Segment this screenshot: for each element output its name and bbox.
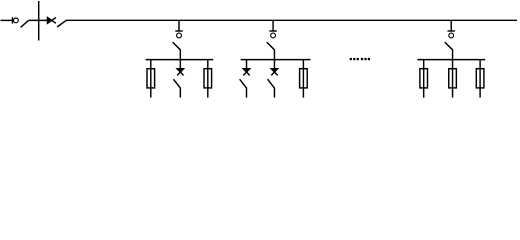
entry bus tie (vertical) — [38, 1, 40, 41]
wire from switch QS2 down to section bus — [179, 50, 181, 61]
wire from section bus to breaker QF2 — [179, 60, 181, 68]
section bus 1 — [146, 59, 214, 61]
fixed contact cross of main breaker QF1 — [48, 18, 52, 24]
wire from switch QS4 down to section bus — [452, 50, 454, 61]
fixed contact cross of breaker QF2 — [177, 69, 183, 72]
wire through fuse FU5 — [452, 60, 454, 98]
wire through fuse FU2 — [207, 60, 209, 98]
fuse FU5 body — [449, 69, 457, 88]
open blade of main breaker QF1 — [57, 20, 66, 27]
wire stub from main bus for QS2 — [178, 20, 180, 31]
fuse FU4 body — [420, 69, 428, 88]
open blade of breaker QF3 — [240, 79, 247, 88]
wire through fuse FU4 — [423, 60, 425, 98]
hinge circle of switch QS3 — [271, 33, 276, 38]
open blade of breaker QF4 — [268, 79, 275, 88]
open blade of breaker QF2 — [173, 79, 180, 88]
wire from section bus to breaker QF3 — [246, 60, 248, 68]
load wire below breaker QF4 — [273, 87, 275, 97]
load wire below breaker QF2 — [179, 87, 181, 97]
fuse FU3 body — [300, 69, 308, 88]
open blade of switch QS4 — [445, 42, 453, 50]
fuse FU1 body — [147, 69, 155, 88]
hinge circle of switch QS2 — [177, 33, 182, 38]
fuse FU2 body — [204, 69, 212, 88]
terminal tick of switch QS2 — [175, 30, 182, 32]
fuse FU6 body — [476, 69, 484, 88]
terminal tick of supply switch QS1 — [12, 17, 14, 23]
wire through fuse FU6 — [479, 60, 481, 98]
hinge circle of supply switch QS1 — [14, 18, 19, 23]
wire stub from main bus for QS3 — [272, 20, 274, 31]
open blade of switch QS2 — [173, 42, 181, 50]
wire between QS1 and breaker QF1 — [29, 19, 48, 21]
fixed contact cross of breaker QF3 — [243, 69, 249, 72]
wire from switch QS3 down to section bus — [273, 50, 275, 61]
section bus 2 — [241, 59, 311, 61]
wire stub from main bus for QS4 — [450, 20, 452, 31]
hinge circle of switch QS4 — [449, 33, 454, 38]
wire through fuse FU3 — [302, 60, 304, 98]
load wire below breaker QF3 — [246, 87, 248, 97]
open blade of switch QS3 — [267, 42, 275, 50]
open blade of supply switch QS1 — [21, 21, 29, 28]
fixed contact cross of breaker QF4 — [271, 69, 277, 72]
wire through fuse FU1 — [150, 60, 152, 98]
terminal tick of switch QS4 — [448, 30, 455, 32]
terminal tick of switch QS3 — [269, 30, 276, 32]
incoming supply lead — [1, 19, 12, 21]
wire from section bus to breaker QF4 — [273, 60, 275, 68]
ellipsis dots (more branches) — [350, 58, 370, 60]
main distribution trunk line — [66, 19, 517, 21]
section bus 3 — [417, 59, 485, 61]
